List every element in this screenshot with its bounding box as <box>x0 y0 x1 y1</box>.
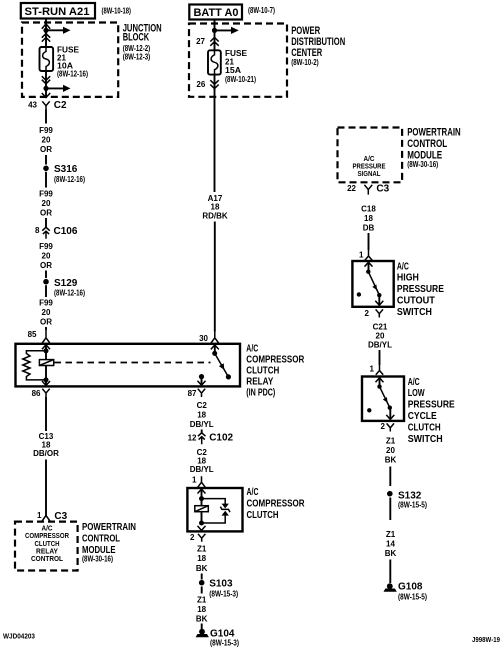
svg-text:(8W-30-16): (8W-30-16) <box>82 555 113 564</box>
svg-text:87: 87 <box>188 389 197 398</box>
svg-text:F99: F99 <box>39 242 53 251</box>
svg-text:S316: S316 <box>54 164 78 175</box>
svg-text:C106: C106 <box>54 226 78 237</box>
wire segment <box>389 467 391 487</box>
A/C high pressure cutout switch box <box>352 261 393 307</box>
wire segment <box>201 587 203 594</box>
arrowhead up at clutch pin 1 entry <box>198 489 206 493</box>
splice S132 label <box>398 490 427 509</box>
node: relay coil top <box>44 348 49 353</box>
wire label F99 20 OR <box>39 299 53 327</box>
fuse 21 (junction block) symbol <box>40 47 54 71</box>
splice S103 <box>199 580 205 586</box>
svg-text:DB/YL: DB/YL <box>190 465 214 474</box>
svg-text:HIGH: HIGH <box>397 272 419 284</box>
node: low switch unused contact <box>367 408 371 412</box>
connector pin 1 symbol (low pressure switch) <box>376 365 383 375</box>
svg-text:14: 14 <box>386 539 395 548</box>
svg-text:26: 26 <box>196 80 205 89</box>
svg-text:20: 20 <box>386 446 395 455</box>
arrowhead up at low switch entry <box>376 378 384 382</box>
svg-text:WJD04203: WJD04203 <box>3 634 35 641</box>
node: clutch coil bottom <box>199 521 204 526</box>
relay pin 87 contact and exit arrow <box>198 374 206 385</box>
svg-text:20: 20 <box>42 252 51 261</box>
relay switch armature (diagonal with arrowhead) <box>215 353 229 377</box>
svg-text:BK: BK <box>196 615 208 624</box>
wire segment <box>201 574 203 580</box>
svg-text:18: 18 <box>197 554 206 563</box>
connector below clutch pin 2 <box>198 534 205 542</box>
svg-text:(8W-12-16): (8W-12-16) <box>57 70 88 79</box>
svg-text:SIGNAL: SIGNAL <box>358 171 382 178</box>
connector below pin 87 <box>198 389 205 397</box>
wire label F99 20 OR <box>39 126 53 154</box>
relay label <box>246 342 304 398</box>
arrowhead up at high switch entry <box>365 262 373 266</box>
svg-text:20: 20 <box>376 332 385 341</box>
svg-text:(8W-30-16): (8W-30-16) <box>407 160 438 169</box>
connector C106 symbol <box>42 227 50 239</box>
svg-text:43: 43 <box>28 101 37 110</box>
arrowhead up at relay pin 30 entry <box>211 345 219 349</box>
wire segment <box>379 350 381 365</box>
low pressure switch label <box>408 376 455 445</box>
svg-text:C3: C3 <box>54 511 67 522</box>
clutch suppression diode branch <box>202 499 231 523</box>
node: high switch unused contact <box>357 292 361 296</box>
svg-text:2: 2 <box>190 533 195 542</box>
high switch armature (diagonal with arrowhead) <box>368 272 379 295</box>
svg-text:18: 18 <box>197 605 206 614</box>
svg-text:30: 30 <box>199 334 208 343</box>
splice S129 label <box>54 278 85 298</box>
connector below low switch pin 2 <box>387 423 394 431</box>
svg-text:20: 20 <box>42 308 51 317</box>
PCM input label: a/c compressor clutch relay control <box>25 525 69 563</box>
svg-text:C3: C3 <box>376 184 389 195</box>
svg-text:BK: BK <box>385 456 397 465</box>
PCM dashed box (bottom left) <box>15 522 78 571</box>
svg-text:A/C: A/C <box>42 525 53 532</box>
splice S129 <box>43 279 49 285</box>
svg-text:COMPRESSOR: COMPRESSOR <box>247 497 305 509</box>
connector C102 symbol <box>198 433 206 445</box>
splice S132 <box>387 491 393 497</box>
svg-text:CUTOUT: CUTOUT <box>397 295 436 307</box>
wire A17 lower segment <box>214 222 216 332</box>
svg-text:A/C: A/C <box>397 260 409 272</box>
svg-text:POWERTRAIN: POWERTRAIN <box>407 127 461 139</box>
svg-text:86: 86 <box>32 389 41 398</box>
branch arrow right (PDC) <box>215 27 239 34</box>
svg-text:(IN PDC): (IN PDC) <box>246 387 275 399</box>
svg-text:F99: F99 <box>39 126 53 135</box>
svg-text:Z1: Z1 <box>386 437 396 446</box>
svg-text:1: 1 <box>192 476 197 485</box>
svg-text:OR: OR <box>40 317 52 326</box>
svg-text:PRESSURE: PRESSURE <box>408 399 455 411</box>
ground G104 symbol <box>196 629 209 637</box>
wire segment <box>45 172 47 188</box>
powertrain control module label (top right) <box>407 127 461 169</box>
A/C low pressure cycle clutch switch box <box>362 377 404 421</box>
node: junction dot (bottom) <box>43 86 48 91</box>
svg-text:J998W-19: J998W-19 <box>472 637 500 644</box>
low switch exit arrow <box>386 408 394 420</box>
svg-text:(8W-12-2): (8W-12-2) <box>123 44 151 53</box>
wire segment <box>201 624 203 630</box>
ground G108 label <box>398 582 427 602</box>
arrowhead up at junction block entry <box>42 24 50 29</box>
wire segment <box>45 460 47 516</box>
svg-text:F99: F99 <box>39 190 53 199</box>
wire A17 upper segment <box>214 75 216 192</box>
svg-text:C18: C18 <box>361 204 376 213</box>
wire label F99 20 OR <box>39 242 53 270</box>
svg-text:C21: C21 <box>373 323 388 332</box>
svg-text:Z1: Z1 <box>197 545 207 554</box>
svg-text:SWITCH: SWITCH <box>408 433 443 445</box>
wire label Z1 14 BK <box>385 530 397 558</box>
power source box ST-RUN A21 <box>21 3 95 19</box>
svg-text:(8W-15-5): (8W-15-5) <box>398 500 427 509</box>
connector pin 1 symbol (high pressure switch) <box>365 250 372 260</box>
branch arrow right (bottom) <box>46 85 71 92</box>
svg-text:A/C: A/C <box>408 376 420 388</box>
svg-text:BK: BK <box>385 549 397 558</box>
svg-text:20: 20 <box>42 199 51 208</box>
wire segment <box>201 430 203 433</box>
connector below pin 86 <box>42 389 49 397</box>
wire label C13 18 DB/OR <box>33 432 59 458</box>
wire segment <box>45 218 47 227</box>
svg-text:DB/YL: DB/YL <box>190 420 214 429</box>
svg-text:A/C: A/C <box>364 156 375 163</box>
node: low switch fixed contact <box>377 384 381 388</box>
wire label C18 18 DB <box>361 204 376 232</box>
svg-text:12: 12 <box>188 434 197 443</box>
high switch: entry wire <box>368 261 370 272</box>
node: junction dot (PDC top) <box>212 28 217 33</box>
svg-text:(8W-12-16): (8W-12-16) <box>54 288 85 297</box>
svg-text:85: 85 <box>28 330 37 339</box>
wire segment <box>45 271 47 279</box>
wire segment C13 <box>45 397 47 431</box>
fuse 21 (PDC) symbol <box>208 50 221 74</box>
current chevrons up (pin 27) <box>210 37 218 45</box>
svg-text:1: 1 <box>359 251 364 260</box>
svg-text:OR: OR <box>40 261 52 270</box>
svg-text:PRESSURE: PRESSURE <box>397 283 444 295</box>
wire segment <box>45 327 47 330</box>
svg-text:OR: OR <box>40 145 52 154</box>
svg-text:(8W-12-3): (8W-12-3) <box>123 53 151 62</box>
svg-text:BATT A0: BATT A0 <box>194 7 239 19</box>
wire: ST-RUN A21 into junction block <box>45 19 47 48</box>
clutch: entry wire pin 1 <box>201 488 203 523</box>
svg-text:POWERTRAIN: POWERTRAIN <box>82 521 136 533</box>
svg-text:RD/BK: RD/BK <box>202 212 228 221</box>
svg-text:18: 18 <box>211 203 220 212</box>
svg-text:Z1: Z1 <box>386 530 396 539</box>
svg-text:LOW: LOW <box>408 387 425 399</box>
svg-text:(8W-10-7): (8W-10-7) <box>248 6 275 15</box>
svg-text:CLUTCH: CLUTCH <box>408 421 441 433</box>
relay switch: wire into pin 30 <box>214 344 216 354</box>
svg-text:DB/OR: DB/OR <box>33 449 59 458</box>
connector pin 1 symbol (clutch) <box>198 476 206 487</box>
wire: BATT A0 into PDC <box>214 20 216 51</box>
splice S316 label <box>54 164 85 184</box>
splice S103 label <box>209 579 238 599</box>
svg-text:POWER: POWER <box>291 25 320 37</box>
connector C2 symbol <box>42 101 49 109</box>
svg-text:22: 22 <box>347 184 356 193</box>
svg-text:ST-RUN A21: ST-RUN A21 <box>25 6 90 18</box>
svg-text:27: 27 <box>196 37 205 46</box>
svg-text:2: 2 <box>365 309 370 318</box>
branch arrow right (top) <box>46 27 71 34</box>
node: high switch output contact <box>377 293 381 297</box>
svg-text:CONTROL: CONTROL <box>82 533 120 545</box>
wire label C2 18 DB/YL <box>190 448 214 474</box>
svg-text:CONTROL: CONTROL <box>407 138 447 150</box>
node: relay coil bottom <box>44 377 49 382</box>
junction block label <box>123 22 162 61</box>
node: clutch coil top <box>199 496 204 501</box>
svg-text:S129: S129 <box>54 278 78 289</box>
wire segment <box>389 560 391 584</box>
relay coil wire pin 85 to pin 86 <box>45 344 47 387</box>
node: relay switch fixed contact (30) <box>212 351 217 356</box>
connector below high switch pin 2 <box>376 309 383 317</box>
svg-text:OR: OR <box>40 209 52 218</box>
svg-text:(8W-15-5): (8W-15-5) <box>398 592 427 601</box>
power distribution center label <box>291 25 345 67</box>
node: junction dot (top of fuse 21) <box>43 28 48 33</box>
wire segment <box>45 110 47 124</box>
wire label F99 20 OR <box>39 190 53 218</box>
wire label Z1 20 BK <box>385 437 397 465</box>
splice S316 <box>43 166 49 172</box>
junction block (dashed box) <box>22 23 118 97</box>
svg-text:CLUTCH: CLUTCH <box>247 509 279 521</box>
low switch armature (diagonal with arrowhead) <box>380 387 390 408</box>
svg-text:CONTROL: CONTROL <box>31 556 64 563</box>
wire label C2 18 DB/YL <box>190 401 214 429</box>
svg-text:2: 2 <box>381 422 386 431</box>
relay resistor (parallel with coil) <box>23 351 46 380</box>
svg-text:SWITCH: SWITCH <box>397 306 432 318</box>
wire label Z1 18 BK <box>196 545 208 573</box>
current chevrons below fuse <box>42 76 50 84</box>
connector C3 symbol (right PCM) <box>364 185 372 195</box>
fuse 21 value label <box>57 46 88 79</box>
wire label Z1 18 BK <box>196 595 208 623</box>
arrowhead down at relay pin 86 exit <box>42 381 50 386</box>
svg-text:18: 18 <box>197 411 206 420</box>
svg-text:G108: G108 <box>398 582 423 593</box>
power source box BATT A0 <box>189 5 242 20</box>
wire segment <box>389 498 391 521</box>
wire segment <box>368 233 370 250</box>
arrowhead up at relay pin 85 entry <box>42 345 50 349</box>
arrowhead down at junction block exit <box>42 93 50 98</box>
relay actuation dashed line <box>55 362 211 364</box>
clutch coil symbol <box>195 506 209 512</box>
wire label C21 20 DB/YL <box>368 323 392 350</box>
powertrain control module label (bottom left) <box>82 521 136 563</box>
svg-text:DB: DB <box>363 224 375 233</box>
wire segment <box>45 285 47 297</box>
svg-text:F99: F99 <box>39 299 53 308</box>
svg-text:C2: C2 <box>197 401 208 410</box>
svg-text:C2: C2 <box>54 100 67 111</box>
wire segment <box>45 155 47 165</box>
svg-text:1: 1 <box>37 511 42 520</box>
arrowhead down at clutch pin 2 exit <box>198 526 206 531</box>
svg-text:RELAY: RELAY <box>36 549 58 556</box>
svg-text:COMPRESSOR: COMPRESSOR <box>25 533 69 540</box>
node: low switch output contact <box>388 406 392 410</box>
PCM dashed box (top right) <box>338 128 403 183</box>
svg-text:(8W-10-2): (8W-10-2) <box>291 58 319 67</box>
svg-text:18: 18 <box>364 214 373 223</box>
low switch: entry wire <box>379 377 381 387</box>
svg-text:S103: S103 <box>209 579 233 590</box>
svg-text:BK: BK <box>196 564 208 573</box>
A/C compressor clutch box <box>187 488 242 531</box>
relay box: A/C compressor clutch relay <box>16 344 241 387</box>
svg-text:DB/YL: DB/YL <box>368 341 392 350</box>
power distribution center (dashed box) <box>189 24 287 97</box>
svg-text:20: 20 <box>42 136 51 145</box>
node: high switch fixed contact <box>366 270 370 274</box>
connector pin 30 symbol <box>211 332 219 344</box>
PCM output label: a/c pressure signal <box>353 156 386 178</box>
svg-text:A/C: A/C <box>247 486 259 498</box>
svg-text:1: 1 <box>370 365 375 374</box>
svg-text:8: 8 <box>35 226 40 235</box>
svg-text:BLOCK: BLOCK <box>123 31 150 43</box>
ground G104 label <box>210 629 239 648</box>
high pressure switch label <box>397 260 444 318</box>
svg-text:CLUTCH: CLUTCH <box>35 541 60 548</box>
svg-text:PRESSURE: PRESSURE <box>353 164 386 171</box>
A/C compressor clutch label <box>247 486 305 521</box>
svg-text:(8W-10-21): (8W-10-21) <box>225 75 256 84</box>
svg-text:(8W-15-3): (8W-15-3) <box>209 589 238 598</box>
current chevrons down to fuse <box>42 34 50 42</box>
svg-text:Z1: Z1 <box>197 595 207 604</box>
high switch exit arrow <box>375 295 383 305</box>
svg-text:A17: A17 <box>208 194 223 203</box>
ground G108 symbol <box>384 583 397 591</box>
connector C3 symbol (left PCM) <box>42 516 50 521</box>
wire: fuse 21 to junction block exit <box>45 71 47 97</box>
current chevrons down (pin 26) <box>210 80 218 88</box>
wire label A17 18 RD/BK <box>202 194 228 221</box>
svg-text:(8W-10-18): (8W-10-18) <box>102 7 132 16</box>
svg-text:C102: C102 <box>209 433 233 444</box>
svg-text:15A: 15A <box>225 66 241 75</box>
connector pin 85 symbol <box>42 330 50 343</box>
svg-text:(8W-15-3): (8W-15-3) <box>210 638 239 647</box>
fuse 21 value label (PDC) <box>225 49 256 84</box>
node: relay switch throw contact <box>226 374 231 379</box>
relay coil symbol <box>39 360 53 366</box>
svg-text:(8W-12-16): (8W-12-16) <box>54 175 85 184</box>
svg-text:CYCLE: CYCLE <box>408 410 437 422</box>
